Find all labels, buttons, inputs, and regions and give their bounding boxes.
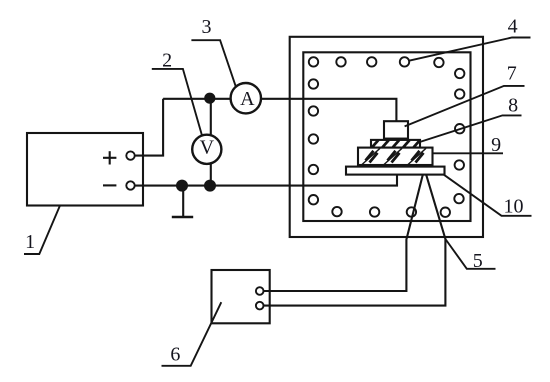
- controller box 6: [212, 270, 270, 323]
- wire: minus terminal rail: [135, 175, 397, 186]
- svg-text:3: 3: [202, 16, 212, 38]
- leader line 1: [24, 206, 60, 255]
- leader line 7: [405, 86, 525, 127]
- svg-text:2: 2: [162, 50, 172, 72]
- leader line 5: [445, 239, 495, 269]
- wire: plus terminal to top rail: [135, 99, 163, 156]
- ground: [172, 186, 193, 217]
- svg-text:9: 9: [491, 134, 501, 156]
- controller terminal lower: [256, 302, 264, 310]
- voltmeter V (2): [192, 135, 221, 164]
- upper electrode block 7: [384, 121, 408, 138]
- wire: top rail to ammeter: [163, 98, 231, 100]
- plus terminal: [126, 151, 134, 159]
- svg-text:7: 7: [507, 62, 517, 84]
- base plate 10: [346, 167, 445, 175]
- ammeter A (3): [231, 83, 261, 113]
- wire: voltmeter branch top: [210, 98, 212, 135]
- vacuum chamber inner wall: [303, 52, 470, 221]
- wire: ammeter to chamber feedthrough: [261, 99, 396, 121]
- thermocouple wire left (5): [264, 175, 423, 291]
- junction node top: [204, 93, 215, 104]
- svg-text:6: 6: [170, 343, 180, 365]
- thermocouple wire right (5): [264, 175, 446, 306]
- leader line 2: [152, 69, 202, 135]
- wire: voltmeter branch bottom: [210, 164, 212, 186]
- chamber bolt holes (4): [309, 57, 465, 217]
- junction dot right: [204, 180, 216, 192]
- svg-text:10: 10: [504, 196, 524, 218]
- heater block 9 (hatched): [358, 148, 433, 165]
- svg-text:5: 5: [473, 250, 483, 272]
- svg-text:V: V: [200, 137, 215, 159]
- controller terminal upper: [256, 287, 264, 295]
- leader line 6: [162, 302, 222, 366]
- leader line 4: [409, 38, 531, 61]
- svg-text:A: A: [240, 88, 255, 110]
- leader line 10: [444, 175, 532, 216]
- minus terminal: [126, 181, 134, 189]
- power supply box 1: [27, 133, 143, 206]
- svg-text:4: 4: [508, 16, 518, 38]
- leader line 8: [417, 115, 522, 142]
- svg-text:1: 1: [25, 231, 35, 253]
- leader line 9: [433, 152, 504, 154]
- vacuum chamber outer wall: [290, 37, 483, 237]
- plus sign: [103, 151, 116, 164]
- leader line 3: [191, 40, 235, 86]
- sample layer 8 (hatched): [371, 140, 420, 148]
- junction dot left: [176, 180, 188, 192]
- svg-text:8: 8: [508, 94, 518, 116]
- minus sign: [103, 184, 116, 186]
